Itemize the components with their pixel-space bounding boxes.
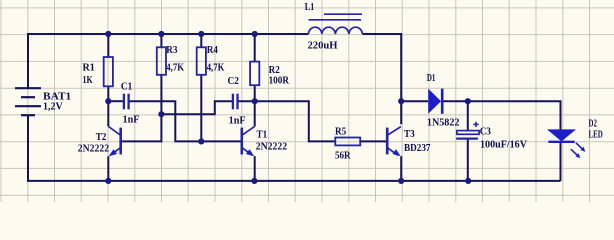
transistor T1 xyxy=(242,127,287,157)
wire T1 base lead xyxy=(201,140,241,142)
wire node B to R5 xyxy=(255,101,336,141)
wire top rail from battery to L1 xyxy=(27,33,308,35)
wire T1 emitter lead xyxy=(254,156,256,181)
wire C3 bottom lead xyxy=(467,139,469,181)
battery BAT1 xyxy=(15,88,71,115)
svg-text:D1: D1 xyxy=(427,73,436,84)
capacitor C2 xyxy=(228,76,246,127)
svg-text:56R: 56R xyxy=(335,150,351,161)
wire C2 to node B xyxy=(238,100,255,102)
svg-text:C2: C2 xyxy=(228,76,239,87)
svg-text:4,7K: 4,7K xyxy=(207,63,225,74)
svg-text:2N2222: 2N2222 xyxy=(78,144,109,155)
svg-text:1,2V: 1,2V xyxy=(43,102,63,113)
svg-text:T2: T2 xyxy=(96,132,107,143)
svg-text:R3: R3 xyxy=(166,45,177,56)
svg-text:R4: R4 xyxy=(207,45,219,56)
capacitor C1 xyxy=(121,82,140,126)
wire T2 collector lead xyxy=(107,101,109,126)
wire R2 bottom lead xyxy=(254,85,256,101)
wire left rail battery bottom xyxy=(27,115,29,182)
node R1 top rail xyxy=(105,31,111,37)
node D1 anode xyxy=(398,98,404,104)
wire R1 top lead xyxy=(107,34,109,57)
wire R2 top lead xyxy=(254,34,256,62)
svg-text:LED: LED xyxy=(589,129,603,140)
svg-text:L1: L1 xyxy=(305,2,315,13)
wire C1 to T1 base node xyxy=(129,101,201,141)
node T1 emitter ground xyxy=(251,178,257,184)
resistor R5 xyxy=(335,126,360,161)
svg-text:R2: R2 xyxy=(269,65,280,76)
wire T1 collector lead xyxy=(254,101,256,126)
wire C3 top lead xyxy=(467,101,469,130)
svg-text:T1: T1 xyxy=(257,130,268,141)
diode D1 xyxy=(427,73,460,129)
node R3 top rail xyxy=(158,31,164,37)
wire bottom rail xyxy=(27,180,561,182)
svg-text:C3: C3 xyxy=(480,127,491,138)
wire C3 node to LED and down xyxy=(468,101,561,129)
wire T3 emitter lead xyxy=(400,156,402,181)
resistor R2 xyxy=(250,62,289,87)
svg-text:4,7K: 4,7K xyxy=(166,63,184,74)
svg-text:100R: 100R xyxy=(269,76,290,87)
node T3 emitter ground xyxy=(398,178,404,184)
node R2 top rail xyxy=(252,31,258,37)
svg-text:1N5822: 1N5822 xyxy=(427,117,460,128)
svg-text:T3: T3 xyxy=(404,129,415,140)
transistor T3 xyxy=(387,127,431,157)
wire C2 coupling from R3 node xyxy=(161,101,232,114)
svg-text:2N2222: 2N2222 xyxy=(256,142,287,153)
svg-text:R5: R5 xyxy=(335,126,346,137)
wire LED cathode lead xyxy=(560,142,562,181)
node C3 ground xyxy=(465,178,471,184)
node B (T1 collector) xyxy=(252,98,258,104)
wire R3 bottom lead to T2 base xyxy=(122,75,162,142)
wire R5 to T3 base xyxy=(360,140,387,142)
node R4 top rail xyxy=(198,31,204,37)
resistor R4 xyxy=(197,45,225,75)
wire R4 bottom lead xyxy=(200,75,202,142)
resistor R3 xyxy=(157,45,185,75)
wire R1 bottom lead xyxy=(107,86,109,101)
inductor L1 xyxy=(305,2,363,52)
wire node A to C1 xyxy=(108,100,123,102)
svg-text:1nF: 1nF xyxy=(229,115,246,126)
svg-text:100uF/16V: 100uF/16V xyxy=(480,139,527,150)
LED D2 xyxy=(547,118,603,158)
wire D1 anode lead xyxy=(401,100,428,102)
resistor R1 xyxy=(83,57,113,86)
svg-text:1nF: 1nF xyxy=(123,115,140,126)
svg-text:1K: 1K xyxy=(83,75,94,86)
node T1 base / R4 xyxy=(198,138,204,144)
capacitor C3 xyxy=(456,122,527,151)
node A (T2 collector) xyxy=(105,98,111,104)
svg-text:D2: D2 xyxy=(589,118,597,129)
node D1 cathode / C3 xyxy=(465,98,471,104)
svg-text:R1: R1 xyxy=(83,62,95,73)
wire R4 top lead xyxy=(200,34,202,47)
transistor T2 xyxy=(78,127,121,157)
wire top rail from L1 to corner and down to D1/T3 node xyxy=(362,34,401,124)
node T2 emitter ground xyxy=(105,178,111,184)
wire D1 cathode to C3 node xyxy=(442,100,468,102)
node R3/C2 junction xyxy=(158,111,164,117)
svg-text:C1: C1 xyxy=(121,82,132,93)
wire T2 emitter lead xyxy=(107,156,109,181)
wire R3 top lead xyxy=(160,34,162,47)
wire left rail battery top xyxy=(27,33,29,88)
svg-text:BD237: BD237 xyxy=(404,143,431,154)
svg-text:220uH: 220uH xyxy=(308,41,339,52)
